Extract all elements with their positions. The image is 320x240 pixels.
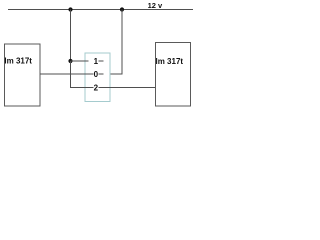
regulator U2 body <box>156 43 191 107</box>
wire: U1 output to potentiometer pin 0 <box>40 73 94 75</box>
svg-text:lm 317t: lm 317t <box>4 57 32 66</box>
wire: node A drop to node C <box>70 10 72 62</box>
wire: node C to potentiometer pin 1 <box>71 60 89 62</box>
junction node B <box>120 7 124 11</box>
wire: +12V top rail <box>8 9 193 11</box>
svg-text:12 v: 12 v <box>148 1 163 10</box>
pin 0 stub <box>99 73 104 75</box>
svg-text:lm 317t: lm 317t <box>156 57 184 66</box>
svg-text:1: 1 <box>94 57 99 66</box>
wire: node C down to pin 2 row <box>71 61 94 88</box>
junction node A <box>68 7 72 11</box>
wire: potentiometer pin 2 to U2 <box>99 87 156 89</box>
svg-text:2: 2 <box>94 84 99 93</box>
wire: node B drop to potentiometer pin 0 <box>111 10 123 75</box>
junction node C <box>68 59 72 63</box>
regulator U1 body <box>5 44 41 106</box>
pin 1 stub <box>99 60 104 62</box>
potentiometer VR1 body <box>85 53 110 102</box>
svg-text:0: 0 <box>94 70 99 79</box>
